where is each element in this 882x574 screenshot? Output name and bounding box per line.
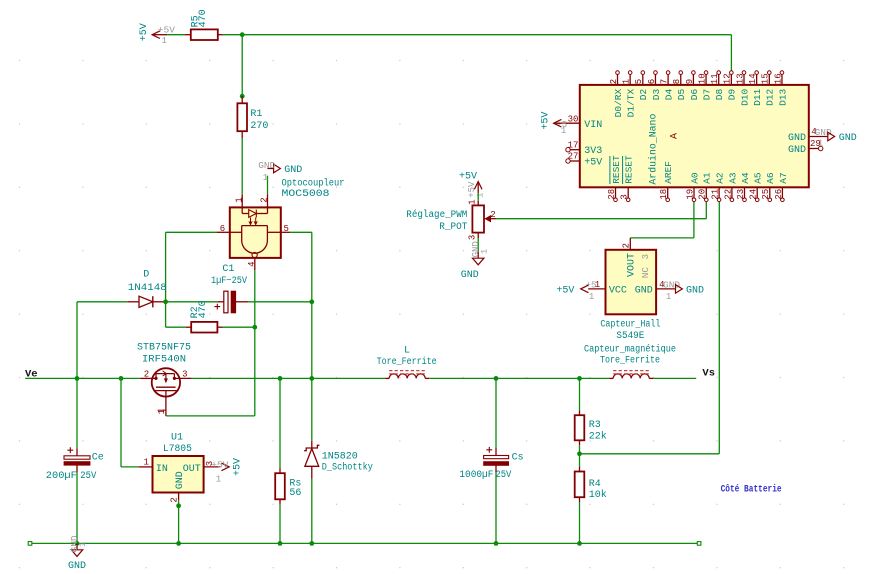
mcu A1 top pins D0-D13	[609, 71, 788, 118]
svg-text:D0/RX: D0/RX	[613, 89, 624, 118]
svg-text:3: 3	[620, 194, 630, 199]
wire (opto pin5 right)	[290, 231, 312, 233]
svg-text:Capteur_magnétique: Capteur_magnétique	[584, 343, 676, 355]
wire end (open, bottom rail right)	[697, 542, 701, 546]
svg-text:D4: D4	[664, 89, 675, 101]
svg-text:Côté Batterie: Côté Batterie	[721, 484, 782, 496]
wire (to Vs)	[653, 377, 696, 379]
svg-text:GND: GND	[839, 133, 857, 144]
svg-text:5: 5	[634, 79, 644, 84]
svg-text:26: 26	[774, 189, 784, 200]
svg-text:16: 16	[773, 73, 783, 84]
svg-text:+5V: +5V	[211, 460, 228, 471]
svg-text:A7: A7	[778, 172, 789, 183]
junction (Ve / Rs branch)	[278, 376, 283, 381]
svg-text:IRF540N: IRF540N	[142, 354, 186, 365]
net label Ve	[25, 368, 38, 380]
svg-text:3V3: 3V3	[584, 146, 602, 157]
svg-text:19: 19	[685, 189, 695, 200]
svg-text:5: 5	[283, 224, 288, 234]
regulator U1 L7805	[139, 433, 221, 503]
svg-text:200µF: 200µF	[46, 471, 77, 482]
diode D 1N4148	[127, 269, 167, 307]
svg-text:1N5820: 1N5820	[322, 451, 358, 462]
mcu pin 29 GND (unconnected)	[788, 139, 823, 156]
junction (Ve / diode branch)	[75, 376, 80, 381]
wire	[76, 378, 78, 448]
transistor Q1 STB75NF75/IRF540N	[140, 368, 191, 416]
junction (L7805 GND / bottom rail)	[176, 541, 181, 546]
resistor R3 22k	[575, 410, 607, 445]
svg-text:D6: D6	[689, 89, 700, 101]
svg-text:GND: GND	[788, 145, 806, 156]
wire	[579, 445, 581, 454]
junction (Cs / bottom rail)	[494, 541, 499, 546]
wire	[630, 237, 694, 239]
svg-text:D3: D3	[651, 89, 662, 101]
wire	[311, 232, 313, 301]
svg-text:23: 23	[736, 189, 746, 200]
svg-text:4: 4	[247, 261, 257, 266]
ground symbol GND (bottom rail)	[68, 535, 88, 572]
svg-text:3: 3	[641, 254, 651, 259]
svg-text:17: 17	[568, 140, 579, 150]
svg-text:L: L	[404, 346, 410, 357]
wire	[495, 378, 497, 448]
svg-text:+5V: +5V	[459, 171, 477, 182]
svg-text:1: 1	[622, 79, 632, 84]
power symbol +5V (L7805 OUT)	[211, 458, 243, 484]
svg-text:11: 11	[710, 73, 720, 84]
svg-text:L7805: L7805	[163, 444, 192, 455]
junction (diode / opto pin6 node)	[163, 299, 168, 304]
wire (MOSFET source return)	[166, 415, 255, 417]
wire	[165, 302, 167, 327]
svg-text:25V: 25V	[80, 471, 96, 482]
svg-text:Cs: Cs	[512, 453, 524, 464]
wire	[165, 232, 167, 301]
svg-text:1N4148: 1N4148	[128, 283, 167, 294]
svg-text:VOUT: VOUT	[626, 253, 637, 277]
svg-text:GND: GND	[258, 160, 275, 171]
wire	[167, 34, 184, 36]
junction (R4 / bottom rail)	[577, 541, 582, 546]
svg-text:21: 21	[711, 189, 721, 200]
svg-text:2: 2	[169, 497, 179, 502]
ground symbol GND (hall)	[676, 285, 705, 297]
svg-text:1: 1	[467, 199, 477, 204]
svg-text:1: 1	[561, 126, 566, 136]
svg-text:+5V: +5V	[139, 23, 150, 41]
svg-text:A6: A6	[765, 172, 776, 184]
resistor R1 270	[237, 96, 268, 138]
svg-text:2: 2	[490, 210, 495, 220]
wire	[166, 301, 218, 303]
wire	[267, 176, 269, 195]
wire (tap to A2)	[580, 453, 720, 455]
svg-text:RESET: RESET	[611, 155, 622, 184]
mcu pin 17 3V3	[566, 140, 603, 157]
label Arduino_Nano reference A	[648, 114, 681, 185]
svg-text:VIN: VIN	[584, 120, 602, 131]
wire (A0 to hall VOUT)	[693, 202, 695, 238]
ground symbol GND (mcu pin 4)	[828, 132, 857, 144]
svg-text:GND: GND	[175, 471, 186, 489]
mcu pin 30 VIN	[556, 114, 602, 135]
svg-text:1: 1	[263, 173, 268, 183]
svg-text:D10: D10	[739, 89, 750, 106]
svg-text:D2: D2	[638, 89, 649, 101]
capacitor C1 1uF-25V	[211, 264, 248, 313]
svg-text:270: 270	[250, 121, 268, 132]
wire	[76, 473, 78, 544]
svg-text:D8: D8	[714, 89, 725, 101]
svg-text:Réglage_PWM: Réglage_PWM	[406, 209, 467, 221]
wire	[579, 378, 581, 410]
svg-text:STB75NF75: STB75NF75	[137, 343, 191, 354]
resistor Rs 56	[275, 468, 301, 505]
wire end (open, bottom rail left)	[28, 542, 32, 546]
svg-text:GND: GND	[788, 133, 806, 144]
junction (C1 / opto pin5 column)	[309, 299, 314, 304]
svg-text:1: 1	[78, 542, 88, 547]
svg-text:GND: GND	[284, 165, 302, 176]
svg-text:1: 1	[216, 474, 221, 484]
svg-text:28: 28	[607, 189, 617, 200]
junction (Ce / bottom rail)	[75, 541, 80, 546]
svg-text:9: 9	[685, 79, 695, 84]
svg-text:D5: D5	[676, 89, 687, 101]
inductor L2 Capteur_magnetique Tore_Ferrite	[584, 343, 676, 378]
svg-text:2: 2	[259, 197, 269, 202]
wire	[248, 301, 311, 303]
potentiometer R_POT Reglage_PWM	[406, 199, 496, 240]
wire (opto pin4 down)	[254, 270, 256, 327]
wire	[77, 301, 127, 303]
svg-text:Ce: Ce	[92, 452, 104, 463]
svg-text:+5V: +5V	[584, 158, 602, 169]
svg-text:D7: D7	[701, 89, 712, 100]
wire (Ve rail right of L)	[429, 377, 609, 379]
wire	[223, 326, 255, 328]
svg-text:24: 24	[749, 189, 759, 200]
svg-text:7: 7	[660, 79, 670, 84]
mcu pin 27 +5V	[566, 152, 603, 169]
junction (Cs branch)	[494, 376, 499, 381]
wire (Ve rail mid)	[192, 377, 386, 379]
svg-text:D12: D12	[765, 89, 776, 106]
svg-text:22k: 22k	[589, 430, 607, 442]
svg-text:GND: GND	[686, 285, 704, 296]
wire	[718, 202, 720, 454]
wire	[311, 378, 313, 440]
svg-text:22: 22	[723, 189, 733, 200]
svg-text:GND: GND	[68, 561, 86, 572]
wire	[730, 35, 732, 71]
svg-text:8: 8	[672, 79, 682, 84]
junction (below L7805 GND pin)	[176, 503, 181, 508]
wire (bottom GND rail)	[32, 542, 698, 544]
svg-text:1: 1	[479, 249, 489, 254]
svg-text:470: 470	[198, 9, 209, 27]
wire	[579, 502, 581, 543]
junction (Schottky / bottom rail)	[309, 541, 314, 546]
svg-text:GND: GND	[461, 270, 479, 281]
svg-text:18: 18	[659, 189, 669, 200]
resistor R5 470	[185, 9, 223, 40]
power symbol +5V (R_POT)	[459, 171, 485, 197]
svg-text:R1: R1	[250, 109, 262, 120]
wire (Ve rail left)	[25, 377, 140, 379]
svg-text:6: 6	[220, 224, 225, 234]
wire	[241, 35, 243, 96]
junction (R2 / opto pin4 node)	[252, 325, 257, 330]
svg-text:A5: A5	[753, 172, 764, 184]
diode 1N5820 D_Schottky	[304, 441, 373, 479]
svg-text:3: 3	[182, 369, 187, 379]
svg-text:U1: U1	[171, 433, 183, 444]
svg-text:3: 3	[467, 235, 477, 240]
wire	[178, 500, 180, 543]
svg-text:20: 20	[698, 189, 708, 200]
svg-text:RESET: RESET	[624, 155, 635, 184]
wire (R_POT wiper to A1)	[496, 218, 706, 220]
svg-text:D1/TX: D1/TX	[626, 89, 637, 118]
wire	[121, 466, 139, 468]
svg-text:+5V: +5V	[541, 112, 552, 130]
capacitor Ce 200uF 25V	[46, 447, 104, 482]
power symbol +5V (VIN)	[541, 112, 562, 130]
svg-text:25: 25	[761, 189, 771, 200]
wire	[477, 238, 479, 252]
svg-text:A3: A3	[727, 172, 738, 184]
svg-text:R_POT: R_POT	[439, 222, 467, 233]
svg-text:IN: IN	[156, 464, 168, 475]
text Cote Batterie	[721, 484, 782, 496]
wire	[311, 302, 313, 379]
svg-text:A1: A1	[702, 172, 713, 184]
svg-text:Capteur_Hall: Capteur_Hall	[600, 319, 660, 331]
svg-text:+5V: +5V	[233, 458, 244, 476]
wire	[477, 193, 479, 201]
svg-text:25V: 25V	[495, 470, 511, 481]
svg-text:D: D	[143, 269, 149, 280]
net label Vs	[702, 368, 715, 380]
svg-text:1: 1	[157, 409, 167, 414]
junction (Rs / bottom rail)	[278, 541, 283, 546]
svg-text:14: 14	[748, 73, 758, 84]
ground symbol GND (R_POT)	[461, 241, 490, 281]
svg-text:470: 470	[198, 300, 209, 318]
mcu A1 Arduino_Nano (body)	[580, 85, 809, 187]
svg-text:1: 1	[162, 36, 167, 46]
junction (R3 branch)	[577, 376, 582, 381]
svg-text:13: 13	[735, 73, 745, 84]
svg-text:A0: A0	[689, 172, 700, 184]
svg-text:1: 1	[143, 458, 148, 468]
svg-text:Optocoupleur: Optocoupleur	[282, 177, 345, 189]
svg-text:NC: NC	[640, 267, 651, 279]
svg-text:D13: D13	[777, 89, 788, 106]
svg-text:1000µF: 1000µF	[459, 470, 493, 481]
label Optocoupleur MOC5008	[282, 177, 345, 199]
label Capteur_Hall S549E	[600, 319, 660, 342]
wire (opto pin6 left)	[166, 231, 217, 233]
wire	[311, 479, 313, 544]
svg-text:VCC: VCC	[609, 285, 627, 296]
wire	[705, 202, 707, 219]
svg-text:29: 29	[810, 139, 821, 149]
junction (Ve / L7805 branch)	[119, 376, 124, 381]
wire	[279, 378, 281, 468]
svg-text:10: 10	[697, 73, 707, 84]
svg-text:2: 2	[622, 243, 632, 248]
svg-text:1: 1	[234, 197, 244, 202]
label STB75NF75 IRF540N	[137, 343, 191, 366]
svg-text:56: 56	[289, 488, 301, 499]
svg-text:Tore_Ferrite: Tore_Ferrite	[600, 355, 660, 367]
svg-text:1µF−25V: 1µF−25V	[211, 276, 247, 287]
svg-text:15: 15	[761, 73, 771, 84]
svg-text:R3: R3	[589, 420, 601, 431]
power symbol +5V (hall VCC)	[556, 285, 588, 296]
svg-text:GND: GND	[663, 280, 680, 291]
svg-text:GND: GND	[635, 285, 653, 296]
mcu pin 4 GND	[788, 127, 832, 148]
svg-text:Vs: Vs	[702, 368, 715, 380]
hall sensor U? Capteur_Hall S549E	[586, 238, 681, 314]
svg-text:D_Schottky: D_Schottky	[322, 461, 373, 473]
svg-text:+5V: +5V	[556, 285, 574, 296]
mcu A1 bottom pins RESET/AREF/A0-A7	[607, 155, 789, 202]
svg-text:S549E: S549E	[616, 331, 644, 342]
svg-text:30: 30	[568, 114, 579, 124]
svg-text:+5V: +5V	[158, 25, 175, 36]
svg-text:12: 12	[723, 73, 733, 84]
wire	[120, 378, 122, 467]
wire	[279, 505, 281, 544]
junction (R3/R4 tap)	[577, 451, 582, 456]
svg-text:A: A	[669, 133, 680, 139]
wire	[495, 473, 497, 544]
wire	[166, 326, 186, 328]
wire	[241, 138, 243, 194]
op-amp U? optocoupler MOC5008	[217, 194, 290, 270]
power symbol +5V (left of R5)	[139, 23, 175, 46]
resistor R2 470	[186, 300, 223, 332]
wire	[254, 327, 256, 416]
junction (Ve / Schottky branch)	[309, 376, 314, 381]
capacitor Cs 1000uF 25V	[459, 447, 523, 481]
junction (above R1)	[240, 94, 245, 99]
wire (top rail to Arduino D9)	[223, 34, 732, 36]
wire	[76, 302, 78, 379]
svg-text:Arduino_Nano: Arduino_Nano	[648, 114, 660, 185]
svg-text:6: 6	[647, 79, 657, 84]
svg-text:C1: C1	[222, 264, 234, 275]
svg-text:Tore_Ferrite: Tore_Ferrite	[377, 356, 437, 368]
svg-text:AREF: AREF	[663, 161, 674, 184]
svg-text:MOC5008: MOC5008	[282, 189, 330, 200]
svg-text:2: 2	[609, 79, 619, 84]
svg-text:R4: R4	[589, 479, 601, 490]
junction (top rail / R1 column)	[240, 32, 245, 37]
svg-text:D11: D11	[752, 89, 763, 106]
svg-text:10k: 10k	[589, 489, 607, 501]
svg-text:1: 1	[475, 193, 485, 198]
svg-text:27: 27	[568, 152, 579, 162]
inductor L Tore_Ferrite	[377, 346, 437, 379]
ground symbol GND (optocoupler pin 2)	[258, 160, 302, 183]
svg-text:D9: D9	[727, 89, 738, 101]
svg-text:A4: A4	[740, 172, 751, 184]
svg-text:2: 2	[144, 369, 149, 379]
svg-text:1: 1	[666, 292, 671, 302]
svg-text:A2: A2	[715, 172, 726, 184]
resistor R4 10k	[575, 454, 607, 502]
svg-text:1: 1	[589, 292, 594, 302]
